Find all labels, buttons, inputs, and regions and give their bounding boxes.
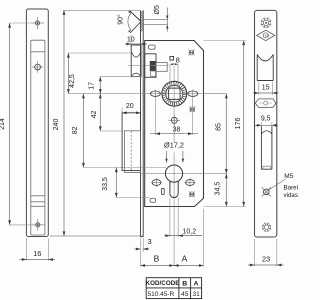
svg-text:240: 240: [53, 119, 60, 131]
svg-text:17: 17: [89, 82, 96, 90]
svg-text:31: 31: [192, 291, 200, 298]
svg-text:B: B: [154, 254, 160, 264]
svg-text:23: 23: [262, 255, 270, 264]
svg-text:Ø17,2: Ø17,2: [164, 141, 184, 150]
svg-text:10,2: 10,2: [182, 228, 196, 235]
svg-text:TSE: TSE: [262, 34, 270, 38]
svg-text:176: 176: [235, 118, 242, 130]
svg-text:15: 15: [262, 84, 270, 91]
svg-text:16: 16: [33, 249, 41, 258]
svg-text:20: 20: [126, 103, 134, 110]
svg-text:vidası: vidası: [284, 192, 299, 199]
svg-text:M5: M5: [284, 173, 293, 180]
svg-text:A: A: [182, 254, 188, 264]
svg-text:90°: 90°: [117, 14, 125, 25]
svg-text:8: 8: [176, 55, 180, 64]
svg-text:Ø5: Ø5: [154, 5, 161, 14]
svg-text:45: 45: [181, 291, 189, 298]
svg-text:10: 10: [127, 37, 135, 44]
svg-text:82: 82: [72, 126, 79, 134]
svg-text:33,5: 33,5: [102, 177, 109, 191]
svg-text:42,5: 42,5: [69, 74, 76, 88]
svg-text:B: B: [182, 280, 187, 287]
svg-text:34,5: 34,5: [215, 182, 222, 196]
svg-text:510.45-R: 510.45-R: [148, 291, 175, 298]
svg-text:85: 85: [216, 123, 223, 131]
svg-text:KOD/CODE: KOD/CODE: [146, 280, 180, 287]
svg-text:A: A: [194, 280, 199, 287]
svg-text:3: 3: [148, 237, 152, 246]
svg-text:Barel: Barel: [284, 184, 298, 191]
svg-text:38: 38: [173, 127, 181, 134]
svg-text:214: 214: [0, 118, 6, 130]
svg-text:9,5: 9,5: [261, 116, 271, 123]
svg-text:42: 42: [91, 111, 98, 119]
